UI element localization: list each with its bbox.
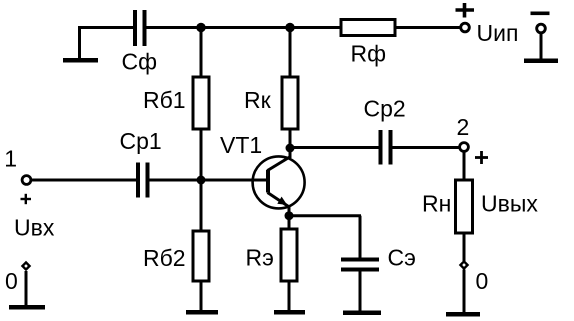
- terminal 1: [22, 176, 31, 185]
- label Rф: [351, 41, 387, 67]
- wire Rк to collector node: [289, 129, 292, 158]
- wire Rб1 column upper: [200, 28, 203, 78]
- wire emitter to Rэ: [288, 216, 291, 229]
- svg-text:VT1: VT1: [220, 132, 262, 158]
- svg-text:Сф: Сф: [122, 49, 158, 75]
- label Сэ: [388, 245, 416, 271]
- label Rн: [422, 191, 451, 217]
- svg-text:Rн: Rн: [422, 191, 451, 217]
- terminal 0 left: [22, 262, 29, 269]
- svg-text:Rк: Rк: [244, 87, 272, 113]
- label VT1: [220, 132, 262, 158]
- capacitor Ср2: [379, 130, 393, 165]
- label 0 right: [476, 268, 489, 294]
- label Rб1: [143, 87, 186, 113]
- wire terminal 0 right to ground: [463, 270, 466, 315]
- transistor VT1 circle: [253, 156, 305, 208]
- label Uип: [477, 20, 519, 46]
- wire Rб2 to ground: [200, 281, 203, 312]
- label 1: [4, 146, 17, 172]
- svg-text:0: 0: [476, 268, 489, 294]
- wire Сэ to ground: [359, 272, 362, 313]
- ground under left 0: [9, 305, 45, 310]
- svg-text:Uип: Uип: [477, 20, 519, 46]
- svg-text:Ср2: Ср2: [364, 96, 406, 122]
- wire minus terminal to ground: [540, 33, 543, 60]
- transistor VT1 collector lead: [268, 157, 291, 171]
- label Ср2: [364, 96, 406, 122]
- svg-text:Rб1: Rб1: [143, 87, 186, 113]
- svg-text:1: 1: [4, 146, 17, 172]
- wire Rн to terminal 0: [463, 233, 466, 261]
- wire left drop to ground: [78, 26, 81, 59]
- node junction base: [197, 176, 206, 185]
- wire top rail left segment: [78, 26, 134, 29]
- node junction emitter: [285, 211, 294, 220]
- node junction top of Rб1 column: [196, 23, 205, 32]
- wire Rк column upper: [289, 28, 292, 78]
- wire Rб1 to base node: [200, 129, 203, 231]
- wire top rail middle segment: [147, 26, 342, 29]
- wire collector to Ср2: [290, 146, 379, 149]
- label Uвх: [14, 215, 55, 241]
- wire Ср1 to base: [150, 179, 267, 182]
- svg-text:Rэ: Rэ: [246, 245, 274, 271]
- resistor Rэ: [281, 229, 297, 281]
- transistor VT1 emitter arrow: [277, 197, 287, 205]
- svg-text:2: 2: [457, 114, 470, 140]
- svg-text:Rф: Rф: [351, 41, 387, 67]
- capacitor Сф: [133, 10, 147, 46]
- label Ср1: [120, 128, 162, 154]
- ground under Rэ: [274, 310, 305, 315]
- svg-text:Rб2: Rб2: [143, 245, 186, 271]
- label 0 left: [5, 268, 18, 294]
- plus sign at input: [21, 194, 32, 204]
- ground under Rб2: [186, 310, 218, 315]
- label Uвых: [481, 191, 538, 217]
- wire terminal 0 left to ground: [25, 271, 28, 307]
- wire Ср2 to terminal 2: [393, 146, 460, 149]
- label 2: [457, 114, 470, 140]
- resistor Rб1: [193, 77, 209, 129]
- svg-text:Ср1: Ср1: [120, 128, 162, 154]
- ground under right 0: [446, 312, 480, 317]
- svg-text:0: 0: [5, 268, 18, 294]
- capacitor Сэ: [341, 258, 379, 272]
- wire emitter to Сэ: [289, 216, 361, 258]
- resistor Rн: [456, 180, 473, 233]
- node junction collector: [286, 144, 295, 153]
- transistor VT1 base bar: [266, 170, 270, 193]
- wire Rэ to ground: [288, 281, 291, 312]
- resistor Rф: [341, 20, 395, 36]
- terminal - of Uип: [537, 24, 546, 33]
- minus sign at ground terminal: [531, 12, 550, 16]
- ground under Сэ: [343, 311, 381, 316]
- terminal 0 right: [460, 261, 467, 268]
- node junction top of Rк column: [285, 23, 294, 32]
- wire input to Ср1: [31, 179, 136, 182]
- ground top-right: [524, 59, 558, 64]
- wire top rail right segment: [395, 26, 460, 29]
- label Rк: [244, 87, 272, 113]
- ground top-left: [63, 58, 98, 63]
- wire terminal 2 to Rн: [463, 151, 466, 180]
- resistor Rб2: [193, 231, 209, 281]
- resistor Rк: [282, 77, 298, 129]
- transistor VT1 emitter lead: [268, 193, 291, 217]
- label Rб2: [143, 245, 186, 271]
- svg-text:Сэ: Сэ: [388, 245, 416, 271]
- svg-text:Uвх: Uвх: [14, 215, 55, 241]
- plus sign at Uип terminal: [456, 3, 475, 18]
- terminal 2: [460, 143, 469, 152]
- svg-text:Uвых: Uвых: [481, 191, 538, 217]
- terminal + of Uип: [461, 23, 470, 32]
- capacitor Ср1: [136, 163, 150, 198]
- label Сф: [122, 49, 158, 75]
- plus sign at output: [475, 151, 488, 164]
- label Rэ: [246, 245, 274, 271]
